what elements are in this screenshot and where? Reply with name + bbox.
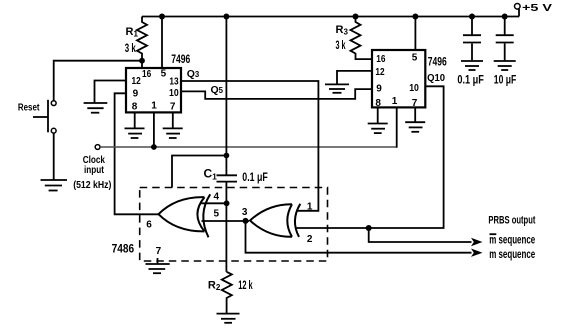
ground (cap 10uF) xyxy=(494,61,516,70)
clock input terminal xyxy=(73,145,111,191)
svg-text:R1: R1 xyxy=(126,26,139,39)
svg-text:7: 7 xyxy=(412,98,418,109)
svg-text:0.1 μF: 0.1 μF xyxy=(242,172,267,184)
svg-text:7: 7 xyxy=(170,101,176,112)
svg-text:5: 5 xyxy=(412,53,418,64)
wire R1/pin16 junction to IC1 pin 16 xyxy=(141,61,143,69)
svg-text:3 k: 3 k xyxy=(125,43,136,55)
capacitor 0.1uF bypass xyxy=(457,17,484,87)
svg-text:7496: 7496 xyxy=(171,52,190,66)
node Q10/pin2 xyxy=(366,225,372,231)
svg-text:9: 9 xyxy=(133,89,139,100)
svg-text:7486: 7486 xyxy=(112,242,135,256)
U2 pin labels xyxy=(375,53,419,110)
ground (reset) xyxy=(41,180,68,191)
7486 package dashed box xyxy=(112,188,328,262)
XOR gate A (7486, output 6, faces left) xyxy=(146,192,219,257)
wire XOR2 pin 2 from Q10 node xyxy=(296,227,369,229)
XOR gate B (7486, output 3, faces left) xyxy=(242,201,313,245)
svg-text:13: 13 xyxy=(169,76,179,87)
node rail/pin5 xyxy=(159,14,165,20)
wire U1 pin 1 drop xyxy=(153,112,155,147)
ground (U1 pin 12) xyxy=(84,103,108,113)
svg-text:4: 4 xyxy=(214,192,220,203)
node R1-reset junction xyxy=(139,58,145,64)
svg-text:7496: 7496 xyxy=(428,55,447,69)
ground (U2 pin 8) xyxy=(368,124,388,134)
ground (U2 pin 7) xyxy=(405,122,425,132)
wire m sequence output from node 3 xyxy=(246,221,472,253)
arrow m sequence xyxy=(471,249,483,257)
svg-text:2: 2 xyxy=(307,234,313,245)
svg-text:16: 16 xyxy=(142,69,152,80)
wire U2 pin 12 to ground xyxy=(337,71,372,84)
resistor R2 xyxy=(208,272,253,313)
wire C1 bottom through XOR pin 4 down to R2 xyxy=(225,183,227,272)
capacitor 10uF bypass xyxy=(494,17,517,87)
wire Q3: U1 pin 13 to XOR2 pin 1 xyxy=(181,68,318,211)
svg-text:10: 10 xyxy=(409,83,419,94)
svg-text:9: 9 xyxy=(376,83,382,94)
IC U1 7496 box xyxy=(126,52,191,112)
svg-text:6: 6 xyxy=(146,220,152,231)
node rail/cap1 xyxy=(469,14,475,20)
svg-text:8: 8 xyxy=(375,98,381,109)
wire U1 pin 5 to +5V rail xyxy=(161,17,163,69)
svg-text:Reset: Reset xyxy=(18,103,40,114)
switch Reset (pushbutton) xyxy=(18,100,56,133)
wire U2 pin 7 to ground xyxy=(414,107,416,121)
wire C1 branch from +5V rail xyxy=(225,17,227,175)
+5V supply rail xyxy=(162,9,519,17)
node 3 (XOR2 output) xyxy=(243,218,249,224)
svg-text:1: 1 xyxy=(307,201,313,212)
node rail/cap2 xyxy=(502,14,508,20)
wire U1 pin 9 feedback from XOR output 6 xyxy=(115,93,159,214)
svg-text:C1: C1 xyxy=(204,166,218,181)
wire XOR1 pin 5 from node 3 xyxy=(202,220,250,222)
svg-text:0.1 μF: 0.1 μF xyxy=(457,75,484,87)
wire U1 pin 12 to ground xyxy=(95,81,127,103)
svg-text:5: 5 xyxy=(214,209,220,220)
svg-text:3 k: 3 k xyxy=(336,40,346,52)
wire reset bottom to ground xyxy=(53,133,55,179)
svg-text:Q5: Q5 xyxy=(211,84,224,96)
svg-text:12: 12 xyxy=(375,67,385,78)
svg-text:(512 kHz): (512 kHz) xyxy=(73,179,111,191)
svg-text:PRBS output: PRBS output xyxy=(488,215,535,227)
ground (U2 pin 12) xyxy=(325,84,349,92)
capacitor C1 xyxy=(204,166,268,184)
output labels xyxy=(488,215,535,262)
IC U2 7496 box xyxy=(372,50,447,107)
wire reset to R1 junction xyxy=(54,61,142,101)
svg-text:R3: R3 xyxy=(336,24,349,37)
ground (7486 pin 7) xyxy=(146,258,170,273)
node C1-line branch xyxy=(224,153,230,159)
svg-text:12 k: 12 k xyxy=(238,280,253,292)
resistor R3 xyxy=(336,17,373,60)
ground (cap 0.1uF) xyxy=(461,61,483,70)
svg-text:+5 V: +5 V xyxy=(522,2,552,14)
node clock/pin1 xyxy=(151,144,157,150)
ground (U1 pin 8) xyxy=(125,128,145,138)
svg-text:16: 16 xyxy=(376,54,386,65)
svg-text:input: input xyxy=(84,164,104,176)
wire clock line to U1 pin1 and U2 pin1 xyxy=(100,146,397,148)
svg-text:Q10: Q10 xyxy=(427,73,445,84)
svg-text:7: 7 xyxy=(156,246,162,257)
ground (U1 pin 7) xyxy=(163,128,183,138)
arrow m-bar sequence xyxy=(471,238,483,246)
svg-text:m sequence: m sequence xyxy=(489,247,535,261)
wire U2 pin 5 to +5V rail xyxy=(414,17,416,51)
wire U1 pin 7 to ground xyxy=(172,112,174,127)
ground (R2) xyxy=(217,314,240,323)
wire U1 pin 8 to ground xyxy=(134,112,136,127)
svg-text:12: 12 xyxy=(132,76,142,87)
wire U2 pin 8 to ground xyxy=(377,107,379,123)
node rail/U2 pin5 xyxy=(412,14,418,20)
svg-text:10 μF: 10 μF xyxy=(494,75,517,87)
svg-text:1: 1 xyxy=(392,96,398,107)
wire branch to 7486 box edge xyxy=(172,156,226,188)
node rail/C1 xyxy=(223,14,229,20)
wire XOR1 pin 4 xyxy=(202,202,227,204)
node rail/R3 xyxy=(353,14,359,20)
svg-text:Q3: Q3 xyxy=(187,68,200,80)
node XOR1 pin 4 xyxy=(224,200,230,206)
svg-text:R2: R2 xyxy=(208,280,221,293)
U1 pin labels xyxy=(132,68,180,112)
resistor R1 xyxy=(125,17,162,61)
wire Q10: U2 pin 10 to XOR2 pin 2 node xyxy=(369,73,446,228)
svg-text:10: 10 xyxy=(169,88,179,99)
svg-text:8: 8 xyxy=(132,101,138,112)
svg-text:3: 3 xyxy=(242,207,248,218)
wire m-bar sequence output from Q10 node xyxy=(369,228,472,242)
+5V terminal xyxy=(515,2,553,14)
svg-text:5: 5 xyxy=(161,68,167,79)
svg-text:1: 1 xyxy=(151,101,157,112)
wire Q5: U1 pin 10 to U2 pin 9 xyxy=(181,84,372,99)
